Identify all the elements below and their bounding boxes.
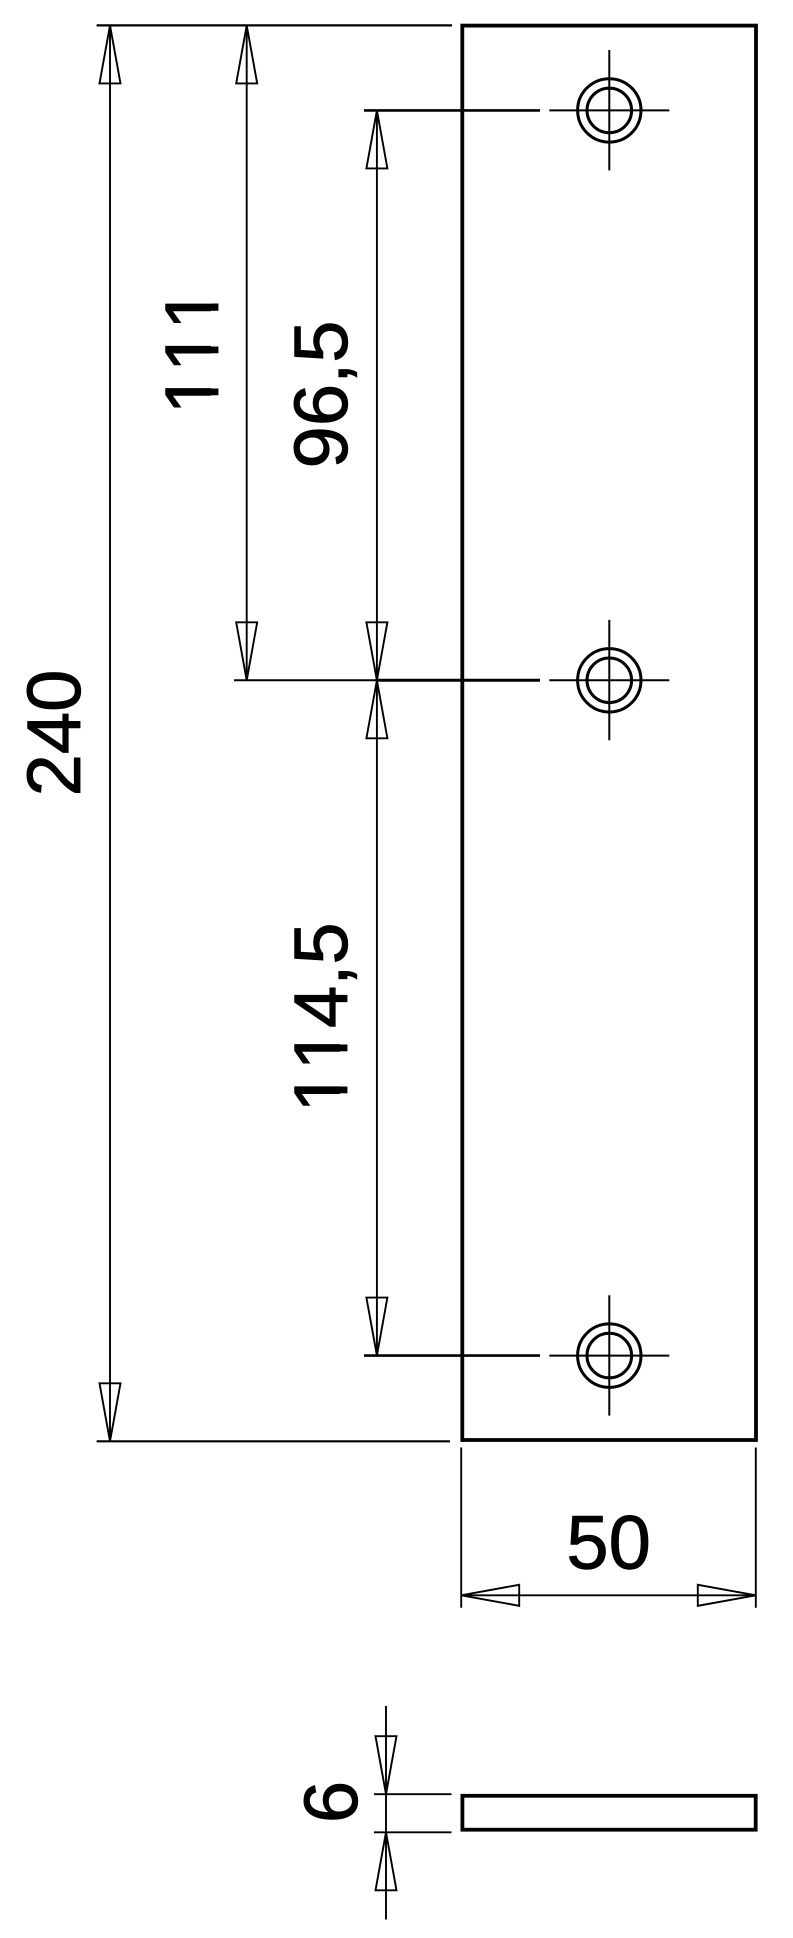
extension line hole H3 centerline [364, 1354, 540, 1357]
arrowhead 50 right [698, 1585, 756, 1606]
svg-text:50: 50 [566, 1501, 651, 1586]
glyph serif masks 114,5 [340, 1030, 349, 1110]
extension line 6 top [374, 1793, 452, 1795]
arrowhead 96,5 top [366, 110, 387, 168]
hole H1 vertical centerline [608, 50, 610, 170]
hole H1 inner circle [587, 88, 632, 133]
hole H2 inner circle [587, 658, 632, 703]
extension line 50 right [755, 1448, 757, 1608]
hole H3 horizontal centerline [549, 1355, 669, 1357]
hole H3 outer circle [578, 1324, 641, 1387]
svg-text:240: 240 [12, 670, 97, 797]
hole H2 outer circle [578, 649, 641, 712]
hole H1 outer circle (counterbore) [578, 79, 641, 142]
svg-text:96,5: 96,5 [279, 321, 364, 469]
extension line hole H2 centerline (thin left part) [234, 679, 377, 681]
arrowhead 50 left [461, 1585, 519, 1606]
dimension line 114,5 [376, 680, 378, 1355]
dimension line 111 [246, 25, 248, 680]
hole H3 inner circle [587, 1333, 632, 1378]
svg-text:111: 111 [150, 288, 235, 415]
hole H2 horizontal centerline [549, 679, 669, 681]
svg-text:6: 6 [289, 1781, 374, 1823]
dimension line 96,5 [376, 110, 378, 680]
extension line hole H2 centerline (thick right part) [377, 679, 540, 682]
arrowhead 111 bottom [236, 622, 257, 680]
glyph serif masks 111 [211, 289, 220, 412]
dimension line 240 [109, 25, 111, 1441]
side view plate outline [462, 1796, 755, 1830]
extension line top edge [97, 24, 452, 26]
arrowhead 240 bottom [100, 1383, 121, 1441]
hole H1 horizontal centerline [549, 109, 669, 111]
plate outline (front view) [462, 26, 756, 1440]
extension line hole H1 centerline [364, 109, 540, 112]
extension line 50 left [460, 1448, 462, 1608]
arrowhead 111 top [236, 25, 257, 83]
hole H2 vertical centerline [608, 620, 610, 740]
arrowhead 6 bottom [376, 1832, 397, 1890]
extension line bottom edge [97, 1440, 450, 1442]
hole H3 vertical centerline [608, 1295, 610, 1415]
dimension line 50 [461, 1594, 756, 1596]
arrowhead 96,5 bottom [366, 622, 387, 680]
arrowhead 114,5 top [366, 680, 387, 738]
extension line 6 bottom [374, 1831, 452, 1833]
svg-text:114,5: 114,5 [279, 922, 364, 1112]
arrowhead 240 top [100, 25, 121, 83]
arrowhead 114,5 bottom [366, 1298, 387, 1356]
dimension line 6 [385, 1706, 387, 1920]
arrowhead 6 top [376, 1736, 397, 1794]
